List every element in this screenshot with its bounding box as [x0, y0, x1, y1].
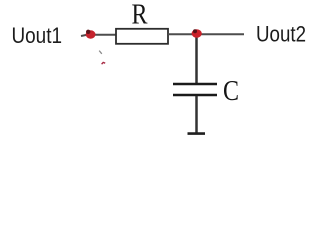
svg-text:R: R [132, 0, 149, 31]
wire: capacitor C bottom plate to ground [195, 96, 198, 134]
capacitor C [173, 84, 217, 95]
ground [188, 132, 206, 135]
resistor R [116, 29, 168, 44]
wire: junction node to Uout2 [197, 33, 244, 35]
stray marks [99, 51, 105, 65]
wire: Uout1 terminal to resistor R left [81, 35, 116, 36]
terminal dot at node Uout1 [86, 30, 96, 39]
svg-text:C: C [223, 75, 239, 107]
wire: resistor R right to junction node [168, 33, 197, 35]
junction node dot [192, 29, 202, 38]
svg-text:Uout1: Uout1 [12, 23, 63, 48]
svg-text:Uout2: Uout2 [256, 22, 306, 47]
wire: junction node down to capacitor C top plate [195, 34, 198, 84]
